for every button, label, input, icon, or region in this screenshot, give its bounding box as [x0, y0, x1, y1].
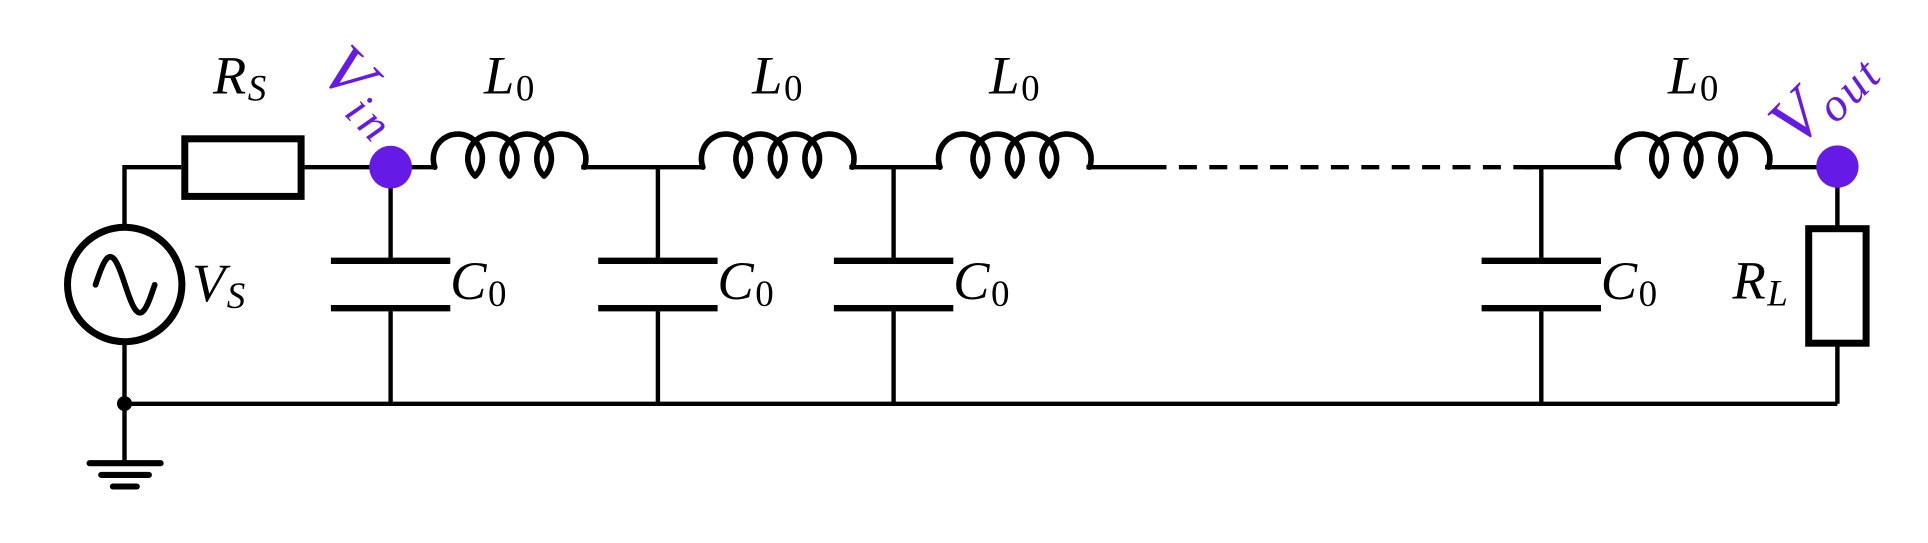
inductor L0 #3 coil	[939, 134, 1092, 176]
wire (cap 2 bottom stub)	[656, 311, 660, 404]
wire (cap 2 top stub)	[656, 167, 660, 258]
wire	[1525, 165, 1620, 169]
wire (dashed continuation)	[1149, 165, 1532, 169]
capacitor C0 #2 plates	[598, 261, 717, 308]
resistor R_S	[185, 139, 301, 197]
wire	[1835, 344, 1839, 404]
label L0 #3	[988, 44, 1039, 109]
wire	[1765, 165, 1837, 169]
inductor L0 #1 coil	[433, 134, 586, 176]
label V_out (rotated)	[1754, 26, 1892, 164]
wire	[849, 165, 941, 169]
capacitor C0 #1 plates	[331, 261, 450, 308]
inductor L0 #2 coil	[701, 134, 854, 176]
voltage source sine	[96, 257, 155, 313]
wire (cap 1 top stub)	[388, 167, 392, 258]
resistor R_L	[1809, 229, 1866, 344]
wire (cap 1 bottom stub)	[388, 311, 392, 404]
capacitor C0 #3 plates	[834, 261, 953, 308]
wire (bottom rail)	[125, 402, 1838, 406]
wire (cap 3 top stub)	[891, 167, 895, 258]
wire	[305, 165, 436, 169]
wire	[1835, 167, 1839, 228]
label V_in (rotated)	[302, 31, 426, 155]
voltage source V_S circle	[68, 227, 182, 341]
ground junction dot	[117, 396, 132, 411]
wire	[581, 165, 704, 169]
label L0 #4	[1667, 44, 1718, 109]
inductor L0 #4 coil	[1617, 134, 1770, 176]
ground	[90, 404, 161, 487]
wire	[125, 167, 182, 225]
capacitor C0 #4 plates	[1482, 261, 1601, 308]
wire (cap 4 top stub)	[1539, 167, 1543, 258]
label L0 #1	[483, 44, 534, 109]
node V_out dot	[1816, 145, 1858, 187]
label L0 #2	[751, 44, 802, 109]
wire (cap 3 bottom stub)	[891, 311, 895, 404]
wire (cap 4 bottom stub)	[1539, 311, 1543, 404]
node V_in dot	[369, 146, 412, 189]
wire	[122, 345, 126, 404]
wire	[1086, 165, 1148, 169]
